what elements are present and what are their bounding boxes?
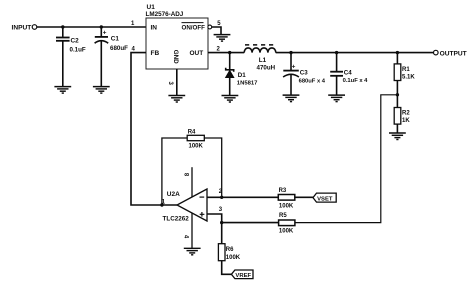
ground below op-amp (184, 248, 201, 255)
pin 8 stub op-amp V+ (191, 167, 193, 197)
svg-text:OUT: OUT (190, 50, 204, 57)
node junction op-amp output feedback (160, 203, 163, 206)
inductor L1 470uH (244, 45, 276, 72)
node junction C1 (100, 25, 103, 28)
diode D1 schottky 1N5817 (226, 53, 259, 96)
svg-text:0.1uF: 0.1uF (70, 46, 86, 53)
node INPUT terminal (12, 25, 37, 32)
svg-text:R4: R4 (188, 130, 196, 136)
resistor R6 100K (218, 244, 240, 261)
ground below C1 (93, 87, 110, 94)
svg-text:100K: 100K (279, 229, 294, 235)
svg-text:GND: GND (172, 50, 179, 64)
pin 5 ON/OFF circle and wire to ground (208, 25, 221, 34)
svg-text:680uF x 4: 680uF x 4 (299, 78, 326, 84)
node OUTPUT terminal (434, 50, 467, 57)
svg-text:C2: C2 (71, 37, 80, 44)
svg-text:470uH: 470uH (257, 64, 276, 71)
svg-text:TLC2262: TLC2262 (163, 215, 190, 222)
svg-text:100K: 100K (226, 255, 241, 261)
ground below R2 (389, 133, 406, 140)
op-amp U1 regulator LM2576-ADJ (146, 4, 209, 69)
resistor R5 100K (279, 213, 295, 234)
wire R6 to VREF flag (222, 261, 232, 275)
ground below U1 GND pin (168, 96, 185, 103)
svg-text:100K: 100K (279, 204, 294, 210)
node junction R1 (396, 51, 399, 54)
node junction C4 (335, 51, 338, 54)
svg-text:C4: C4 (344, 69, 352, 76)
resistor R3 100K (278, 188, 295, 209)
ground below C3 (283, 95, 300, 102)
wire R5 to divider junction (295, 95, 398, 223)
svg-text:5.1K: 5.1K (402, 75, 415, 81)
wire input rail (37, 26, 146, 28)
capacitor C3 polarized (283, 53, 326, 95)
svg-text:+: + (292, 63, 296, 70)
capacitor C4 (330, 53, 368, 95)
svg-text:C3: C3 (300, 70, 308, 77)
svg-text:L1: L1 (259, 57, 267, 64)
capacitor C1 polarized (95, 27, 129, 86)
svg-text:100K: 100K (189, 144, 204, 150)
capacitor C2 (56, 27, 86, 86)
wire FB pin to op-amp output (131, 53, 177, 205)
resistor R1 5.1K (394, 53, 415, 108)
svg-text:VSET: VSET (317, 196, 333, 202)
wire feedback loop up to R4 (162, 138, 187, 205)
svg-text:ON/OFF: ON/OFF (182, 24, 206, 31)
node junction C3 (289, 51, 292, 54)
ground at ON/OFF pin (214, 35, 231, 42)
svg-text:R5: R5 (279, 213, 287, 219)
svg-text:0.1uF x 4: 0.1uF x 4 (343, 78, 369, 84)
ground below D1 (222, 96, 239, 103)
node VSET net label (313, 193, 336, 202)
svg-text:+: + (103, 30, 107, 37)
svg-text:680uF: 680uF (110, 45, 128, 52)
resistor R4 100K (187, 130, 204, 150)
node junction R1-R2 divider (396, 93, 399, 96)
svg-text:LM2576-ADJ: LM2576-ADJ (146, 11, 184, 18)
wire non-inverting input jog (207, 214, 222, 223)
wire GND pin 3 down (176, 69, 178, 95)
svg-text:R2: R2 (402, 111, 410, 117)
resistor R2 1K (394, 108, 410, 133)
svg-text:D1: D1 (238, 72, 246, 79)
svg-text:U2A: U2A (167, 191, 180, 198)
node VREF net label (231, 270, 253, 279)
wire R3 to VSET flag (295, 196, 313, 198)
op-amp U2A TLC2262 (163, 189, 208, 222)
svg-text:FB: FB (151, 50, 160, 57)
svg-text:C1: C1 (111, 36, 120, 43)
wire R6 branch down (221, 223, 223, 244)
wire inverting input to R3 (207, 196, 278, 198)
wire R4 to inverting input (204, 138, 221, 197)
node junction inverting input (220, 196, 223, 199)
pin 4 stub op-amp V- (191, 213, 193, 248)
ground below C2 (54, 87, 71, 94)
wire output rail from OUT pin (208, 52, 244, 54)
wire to R5 (222, 222, 279, 224)
svg-text:R3: R3 (279, 188, 287, 194)
svg-text:R6: R6 (226, 247, 234, 253)
node junction C2 (61, 25, 64, 28)
node junction D1 (228, 51, 231, 54)
svg-text:INPUT: INPUT (12, 25, 32, 32)
node junction non-inverting input (220, 221, 223, 224)
svg-text:VREF: VREF (235, 273, 251, 279)
ground below C4 (328, 95, 345, 102)
svg-text:OUTPUT: OUTPUT (440, 51, 467, 58)
wire output rail after L1 (276, 52, 434, 54)
svg-text:IN: IN (151, 25, 158, 32)
svg-text:1N5817: 1N5817 (237, 81, 258, 87)
svg-text:1K: 1K (402, 118, 410, 124)
svg-text:R1: R1 (402, 67, 410, 73)
